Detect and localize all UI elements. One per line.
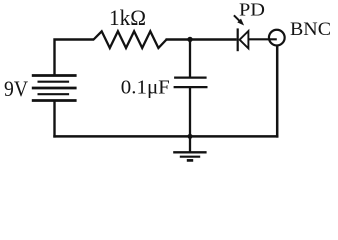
label PD xyxy=(239,0,265,19)
svg-text:1kΩ: 1kΩ xyxy=(109,5,146,30)
wire BNC down right side xyxy=(276,45,279,137)
svg-text:0.1μF: 0.1μF xyxy=(121,78,170,99)
battery B1 9V plates xyxy=(32,76,77,101)
capacitor C1 plates xyxy=(174,78,208,88)
wire resistor to photodiode xyxy=(166,38,237,40)
value label 1kΩ xyxy=(109,5,146,30)
wire battery to bottom rail xyxy=(53,101,55,138)
label 9V xyxy=(4,76,28,101)
label BNC xyxy=(290,19,331,40)
wire top-left from battery to resistor xyxy=(55,40,95,76)
photodiode PD cathode bar xyxy=(237,28,239,51)
wire photodiode to BNC xyxy=(248,38,276,40)
ground stem xyxy=(189,136,191,152)
BNC connector circle xyxy=(269,30,285,46)
wire capacitor branch top xyxy=(189,40,191,78)
svg-text:PD: PD xyxy=(239,0,265,19)
wire capacitor branch bottom xyxy=(189,87,191,136)
node junction dot top xyxy=(187,37,192,42)
arrow from PD label to photodiode xyxy=(234,15,244,25)
resistor R1 zigzag xyxy=(94,31,167,48)
photodiode PD triangle xyxy=(240,31,249,48)
svg-text:9V: 9V xyxy=(4,76,28,101)
svg-text:BNC: BNC xyxy=(290,19,331,40)
value label 0.1µF xyxy=(121,78,170,99)
node junction dot bottom xyxy=(188,134,193,139)
wire bottom rail xyxy=(53,135,278,138)
ground symbol bars xyxy=(173,152,206,160)
